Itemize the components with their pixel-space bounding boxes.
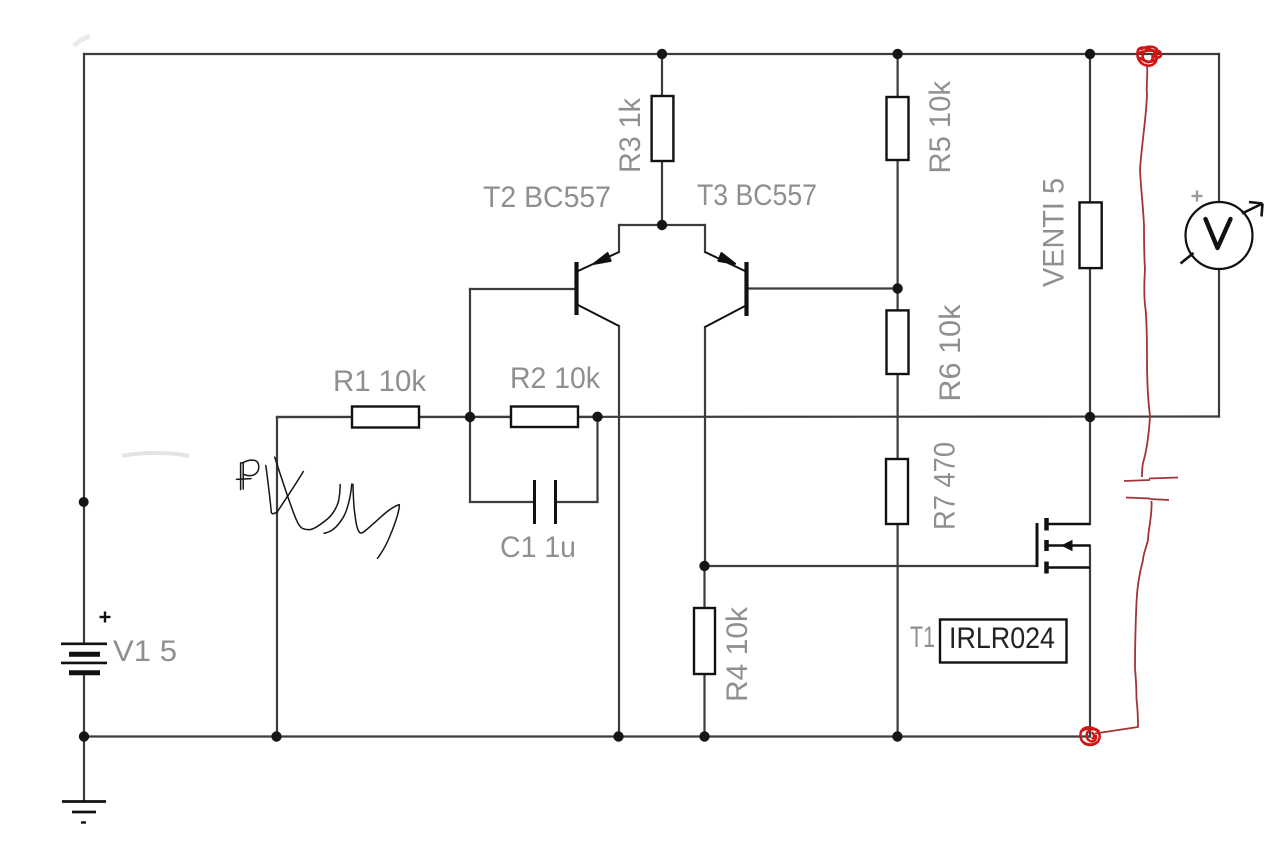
svg-text:R2 10k: R2 10k	[510, 362, 601, 395]
svg-text:T3 BC557: T3 BC557	[697, 179, 817, 212]
svg-text:T1: T1	[910, 621, 935, 654]
svg-text:VENTI 5: VENTI 5	[1038, 178, 1071, 287]
svg-text:IRLR024: IRLR024	[949, 622, 1055, 655]
svg-text:R7 470: R7 470	[929, 442, 962, 530]
svg-text:V1 5: V1 5	[113, 635, 177, 668]
svg-text:R4 10k: R4 10k	[721, 606, 754, 702]
svg-text:T2 BC557: T2 BC557	[483, 181, 611, 214]
svg-text:R5 10k: R5 10k	[924, 80, 957, 173]
svg-text:R3 1k: R3 1k	[614, 97, 647, 173]
svg-text:R6 10k: R6 10k	[934, 304, 967, 402]
svg-text:R1 10k: R1 10k	[333, 365, 427, 398]
svg-text:C1 1u: C1 1u	[500, 531, 576, 564]
